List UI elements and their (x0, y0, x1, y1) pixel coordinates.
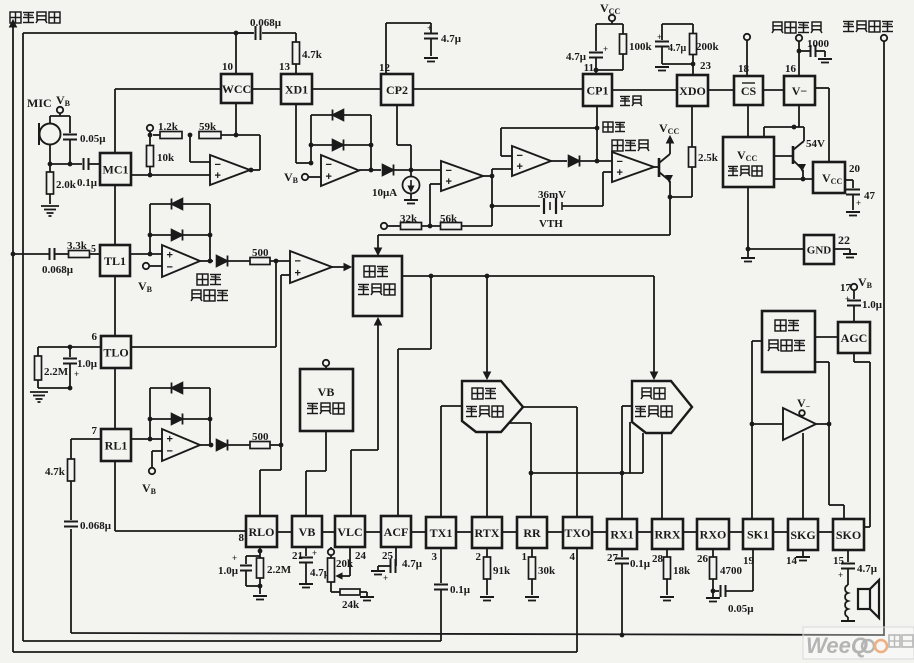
svg-text:ACF: ACF (384, 525, 409, 539)
op-amp U7 summing (290, 251, 332, 283)
wire RL1 left leg (71, 438, 101, 440)
node 发送输出 (transmit output) label (10, 12, 21, 23)
wire buffer lower to SKG (802, 433, 804, 519)
svg-text:4.7μ: 4.7μ (441, 33, 462, 45)
svg-text:+: + (856, 198, 861, 208)
svg-text:−: − (167, 446, 173, 458)
svg-text:+: + (845, 294, 850, 304)
ic-block TX1 pin 3 (426, 517, 456, 548)
svg-text:4700: 4700 (720, 565, 743, 577)
svg-text:15: 15 (833, 555, 845, 567)
svg-text:4: 4 (570, 551, 576, 563)
svg-text:500: 500 (252, 247, 269, 259)
svg-text:+: + (74, 369, 79, 379)
svg-text:RR: RR (523, 526, 541, 540)
svg-text:CS: CS (741, 84, 757, 98)
wire bottom rail A (71, 633, 884, 635)
svg-text:2.2M: 2.2M (44, 366, 69, 378)
svg-text:RTX: RTX (475, 526, 500, 540)
wire limiter to AGC (815, 336, 838, 338)
op-amp U9 buffer with V- supply (752, 423, 783, 425)
svg-text:18k: 18k (673, 565, 691, 577)
wire CS to Vcc regulator (747, 105, 749, 137)
capacitor 4.7u below VB pin 21 (305, 547, 307, 556)
svg-text:+: + (383, 573, 388, 583)
svg-text:22: 22 (838, 233, 850, 247)
wire attenuation control line (378, 234, 670, 236)
svg-text:−: − (326, 159, 332, 171)
ic-block RX1 pin 27 (607, 519, 637, 549)
capacitor 1.0u at AGC top (847, 300, 861, 302)
svg-text:2: 2 (476, 551, 482, 563)
capacitor 1.0u polarized (69, 347, 71, 357)
wire V- right to Vcc pin 20 box (815, 87, 829, 89)
svg-text:TL1: TL1 (104, 254, 126, 268)
svg-text:+: + (167, 433, 173, 445)
op-amp U8 (162, 429, 200, 461)
node U2 output (359, 169, 371, 171)
wire bottom rail C to TXO output (13, 651, 577, 653)
capacitor 1.0u and resistor 2.2M below RLO (259, 547, 261, 556)
svg-text:25: 25 (382, 550, 394, 562)
svg-text:RL1: RL1 (105, 438, 128, 452)
op-amp U2 (321, 155, 359, 186)
wire buffer output jog to SKO (816, 423, 829, 425)
svg-text:30k: 30k (538, 565, 556, 577)
wire mic node (50, 163, 82, 165)
node junction transmit rail to TL1 (11, 252, 16, 257)
wire CP2 pin 12 to detector (396, 105, 398, 145)
svg-text:10k: 10k (157, 152, 175, 164)
current-source 10uA (410, 170, 412, 176)
resistor 4700 below RXO pin 26 (712, 549, 714, 557)
svg-text:4.7μ: 4.7μ (857, 563, 878, 575)
node 直流输入 (DC input) terminal pin 16 (773, 22, 782, 30)
ground below SKG pin 14 (802, 550, 804, 556)
svg-text:28: 28 (652, 553, 664, 565)
svg-text:11: 11 (584, 62, 594, 74)
capacitor 47 at Vcc pin 20 (845, 179, 853, 181)
svg-text:−: − (617, 156, 623, 168)
svg-text:24k: 24k (342, 599, 360, 611)
ic-block AGC (838, 322, 870, 353)
wire receive attenuator to RRX (661, 433, 663, 519)
svg-text:+: + (427, 23, 432, 33)
ground tick at GND box (834, 248, 850, 250)
ic-block SKG pin 14 (788, 519, 818, 550)
svg-text:500: 500 (252, 431, 269, 443)
inductor speaker coil (845, 585, 848, 617)
wire U7 output arrow into controller (332, 266, 346, 268)
wire transmit attenuator output to TXO (523, 406, 577, 408)
svg-text:7: 7 (92, 425, 98, 437)
wire receive attenuator left tap (629, 422, 631, 473)
wire VB regulator to VB pin 21 (325, 431, 327, 471)
svg-text:+: + (295, 268, 301, 280)
ground below TLO bias (38, 387, 70, 389)
wire MC1 to TL1 (114, 185, 116, 245)
svg-text:+: + (517, 161, 523, 173)
diode D3 after U2 (371, 169, 381, 171)
node U8 output (200, 444, 213, 446)
svg-text:17: 17 (840, 282, 852, 294)
wire Q1 emitter to control line (669, 181, 671, 235)
wire to ACF pin 25 (430, 276, 432, 349)
svg-text:4.7μ: 4.7μ (566, 51, 587, 63)
wire transmit attenuator lower tap to RR (508, 422, 531, 424)
svg-text:91k: 91k (493, 565, 511, 577)
wire XD1 pin to op-amp U2 (295, 104, 297, 163)
svg-text:56k: 56k (440, 213, 458, 225)
svg-text:CP1: CP1 (587, 83, 609, 97)
ic-block VB pin 21 (292, 516, 322, 547)
ic-block RRX pin 28 (652, 519, 683, 549)
wire controller output row (402, 275, 654, 277)
ic-block XDO pin 23 (677, 75, 708, 106)
node junction RX1 leg on rail A (620, 633, 625, 638)
ic-block RL1 pin 7 (101, 429, 131, 461)
ic-block CP1 pin 11 (583, 74, 612, 106)
resistor 2.0k mic bias (49, 164, 51, 172)
svg-text:VTH: VTH (539, 218, 563, 230)
diode D5 (217, 256, 228, 267)
wire RL1 leg rail (70, 439, 72, 459)
svg-text:0.068μ: 0.068μ (80, 520, 112, 532)
svg-text:3.3k: 3.3k (67, 240, 88, 252)
resistor 24k (331, 591, 340, 593)
svg-text:26: 26 (697, 553, 709, 565)
resistor 4.7k at XD1 pin13 (295, 33, 297, 42)
svg-text:6: 6 (92, 331, 98, 343)
svg-text:100k: 100k (629, 41, 653, 53)
svg-text:4.7k: 4.7k (45, 466, 66, 478)
resistor 32k (401, 223, 422, 230)
ic-block RXO pin 26 (697, 519, 729, 549)
resistor 200k at XDO (692, 24, 694, 33)
wire arrow into 接收衰耗器 (653, 276, 655, 374)
svg-text:200k: 200k (696, 41, 720, 53)
svg-text:0.1μ: 0.1μ (450, 584, 471, 596)
svg-text:0.05μ: 0.05μ (728, 603, 754, 615)
svg-text:AGC: AGC (841, 331, 868, 345)
ic-block GND pin 22 (804, 235, 834, 264)
wire receive attenuator input from RX1 (622, 405, 632, 407)
speaker (858, 589, 870, 609)
capacitor 4.7u below SKO pin 15 (847, 550, 849, 562)
svg-text:47: 47 (864, 190, 876, 202)
svg-text:−: − (446, 165, 452, 177)
diode pair feedback loop U6 (149, 204, 151, 254)
svg-text:MC1: MC1 (103, 162, 129, 176)
ic-block TL1 pin 5 (100, 245, 130, 276)
svg-text:RRX: RRX (655, 527, 681, 541)
ic-block CS-bar pin 18 (734, 76, 763, 105)
svg-text:0.068μ: 0.068μ (42, 264, 74, 276)
op-amp U6 话筒放大器 (162, 245, 200, 277)
svg-text:0.1μ: 0.1μ (77, 177, 98, 189)
wire WCC to MC1 (114, 89, 116, 153)
diode pair feedback loop U8 (149, 388, 151, 439)
svg-text:20: 20 (849, 163, 861, 175)
resistor 59k (199, 132, 221, 139)
ic-block MC1 (100, 153, 131, 185)
svg-text:10: 10 (222, 61, 234, 73)
ic-block V- pin 16 (784, 76, 815, 105)
svg-text:−: − (167, 262, 173, 274)
op-amp U3 (441, 161, 483, 191)
svg-text:16: 16 (785, 63, 797, 75)
terminal above 10k (147, 125, 153, 131)
svg-text:2.0k: 2.0k (56, 179, 77, 191)
svg-text:+: + (838, 570, 843, 580)
op-amp U5 comparator 比较器 (612, 140, 623, 151)
svg-text:0.05μ: 0.05μ (80, 133, 106, 145)
svg-text:36mV: 36mV (538, 189, 566, 201)
svg-text:+: + (312, 548, 317, 558)
capacitor 0.1u below RX1 pin 27 (621, 549, 623, 557)
wire cross rail (531, 472, 643, 474)
wire RL1 to op-amp U8 (131, 438, 162, 440)
ic-block RLO pin 8 (246, 516, 277, 547)
svg-text:1.0μ: 1.0μ (862, 299, 883, 311)
block 发送衰耗器 (transmit attenuator) (462, 381, 523, 432)
svg-text:VB: VB (299, 525, 316, 539)
op-amp U1 mic stage (210, 155, 250, 185)
node CS pin 18 terminal (744, 34, 750, 40)
diode pair feedback loop U2 (310, 115, 312, 163)
svg-text:RLO: RLO (248, 525, 274, 539)
svg-text:−: − (215, 159, 221, 171)
wire inverting input op-amp U1 (189, 135, 191, 162)
resistor 4.7k (68, 459, 75, 481)
svg-text:+: + (232, 553, 237, 563)
svg-text:VB: VB (318, 385, 335, 399)
node U6 output (200, 260, 213, 262)
svg-text:SKO: SKO (836, 528, 861, 542)
ic-block VLC pin 24 (335, 516, 365, 547)
resistor 91k below RTX pin 2 (486, 548, 488, 557)
svg-text:V−: V− (792, 84, 808, 98)
svg-text:WeeQ: WeeQ (806, 633, 868, 658)
wire transmit attenuator bottom to RTX (486, 432, 488, 517)
ic-block XD1 pin 13 (281, 74, 312, 104)
svg-text:+: + (167, 249, 173, 261)
ic-block Vcc稳压器 (Vcc regulator) (723, 137, 774, 187)
svg-text:1.0μ: 1.0μ (218, 565, 239, 577)
node 话筒放大器 (mic amplifier) label (197, 274, 208, 285)
wire TXO pin 4 down to bottom rail (576, 548, 578, 652)
wire receive attenuator bottom to cross rail (642, 433, 644, 473)
resistor 2.2M (37, 347, 39, 356)
ic-block 峰值限幅器 (peak limiter) (762, 311, 815, 372)
svg-text:21: 21 (292, 550, 303, 562)
svg-text:CP2: CP2 (386, 83, 408, 97)
resistor 2.5k from XDO (691, 106, 693, 147)
wire 59k to WCC and feedback (221, 134, 260, 136)
wire second left rail (22, 33, 24, 641)
wire TLO to summing node (275, 261, 277, 347)
svg-text:1: 1 (522, 551, 528, 563)
wire Q2 emitter row (802, 170, 804, 179)
ic-block VB稳压器 (VB regulator) (300, 369, 353, 431)
wire AGC bottom to SKO right (853, 353, 855, 362)
ic-block 衰耗控制器 (attenuation controller) (353, 256, 402, 316)
svg-text:WCC: WCC (222, 82, 251, 96)
capacitor 0.068u on leg (64, 521, 78, 523)
svg-text:14: 14 (786, 555, 798, 567)
svg-text:1.0μ: 1.0μ (77, 358, 98, 370)
capacitor 0.05u to SK1 pin 19 (713, 590, 719, 592)
svg-text:MIC: MIC (27, 96, 52, 110)
ic-block SK1 pin 19 (743, 519, 773, 549)
wire regulator bottom to GND box (747, 187, 749, 249)
svg-text:59k: 59k (199, 121, 217, 133)
diode D6 (217, 440, 228, 451)
ic-block ACF pin 25 (381, 516, 411, 547)
ground below 2.0k (41, 205, 59, 207)
svg-text:+: + (446, 176, 452, 188)
wire CP1 bias loop (596, 23, 623, 25)
wire TLO output to summing (131, 346, 276, 348)
svg-text:+: + (215, 170, 221, 182)
resistor 56k (441, 223, 462, 230)
node junction top rail / WCC (234, 31, 239, 36)
wire top-row interconnects (115, 88, 221, 90)
wire TL1 to op-amp U6 (130, 253, 162, 255)
ic-block SKO pin 15 (833, 519, 864, 550)
capacitor 4.7u at XDO pin 23 (662, 23, 693, 25)
svg-text:4.7k: 4.7k (302, 49, 323, 61)
ic-block WCC pin 10 (221, 74, 252, 103)
svg-text:2.2M: 2.2M (267, 564, 292, 576)
svg-text:3: 3 (432, 551, 438, 563)
wire bottom rail B to TX1 cap (23, 640, 441, 642)
terminal VB at U6 (143, 263, 149, 269)
wire receive-input right rail (883, 40, 885, 636)
svg-text:32k: 32k (400, 213, 418, 225)
svg-text:SKG: SKG (790, 528, 815, 542)
svg-text:0.1μ: 0.1μ (630, 558, 651, 570)
node 检测 (detect) junction at CP1 bottom (596, 106, 598, 161)
svg-text:12: 12 (379, 62, 391, 74)
svg-text:+: + (617, 167, 623, 179)
wire limiter left to SK1 rail (752, 340, 762, 342)
wire arrow into 发送衰耗器 (486, 276, 488, 374)
svg-text:+: + (603, 44, 608, 54)
ic-block RTX pin 2 (472, 517, 502, 548)
wire U4 feedback loop to 检测 node (501, 127, 597, 129)
capacitor 0.1u below TX1 pin 3 (440, 548, 442, 583)
watermark WeeQoo (803, 627, 914, 659)
svg-text:RX1: RX1 (610, 527, 633, 541)
ic-block RR pin 1 (517, 517, 547, 548)
wire U3 + input (430, 183, 441, 185)
resistor 18k below RRX pin 28 (666, 549, 668, 557)
resistor 1.2k (153, 134, 160, 136)
resistor 10k (147, 146, 154, 167)
resistor 500 transmit (250, 258, 270, 265)
svg-text:10μA: 10μA (372, 187, 397, 199)
svg-text:SK1: SK1 (747, 527, 769, 541)
wire top rail to WCC pin 10 (23, 32, 253, 34)
resistor 100k CP1 bias (622, 24, 624, 34)
block 接收衰耗器 (receive attenuator) (632, 381, 692, 433)
capacitor 4.7u at CP2 top with ground (385, 23, 387, 74)
resistor 3.3k (69, 251, 90, 258)
wire V- bottom to regulator top (798, 105, 800, 127)
ic-block CP2 pin 12 (381, 74, 413, 105)
svg-text:TX1: TX1 (430, 526, 453, 540)
svg-text:24: 24 (355, 550, 367, 562)
wire 56k up to U3 output (491, 176, 493, 226)
svg-text:XD1: XD1 (285, 82, 308, 96)
svg-text:23: 23 (700, 60, 712, 72)
svg-text:8: 8 (239, 532, 245, 544)
svg-text:TLO: TLO (103, 345, 128, 359)
wire RL1 bottom to RLO input (114, 461, 116, 531)
diode D4 after U4 (551, 160, 567, 162)
wire RL1 path down to RLO (280, 446, 282, 470)
svg-text:54V: 54V (806, 138, 825, 150)
wire transmit attenuator input from TX1 (441, 405, 462, 407)
node 信噪 (signal/noise) label (620, 96, 630, 98)
capacitor 0.05u mic filter (69, 116, 71, 133)
wire TLO left bias (38, 346, 101, 348)
svg-text:GND: GND (807, 244, 832, 256)
ic-block TLO pin 6 (101, 336, 131, 368)
transistor Q2 54V (774, 155, 793, 157)
battery 36mV VTH reference (492, 205, 540, 207)
svg-text:RXO: RXO (700, 527, 727, 541)
svg-text:−: − (517, 150, 523, 162)
ic-block Vcc pin 20 (813, 162, 845, 193)
svg-text:13: 13 (279, 61, 291, 73)
svg-text:+: + (657, 32, 662, 42)
wire transmit-output left rail with up arrow (12, 24, 14, 652)
node junction 1.2k/59k (188, 133, 193, 138)
node 接收输入 (receive input) terminal (843, 21, 854, 23)
capacitor 4.7u below ACF (395, 547, 397, 560)
ground tick below XDO cap (655, 66, 669, 68)
op-amp U4 with feedback from CP1 (492, 175, 493, 177)
svg-text:−: − (295, 255, 301, 267)
power VCC arrow at Q1 collector (669, 140, 671, 154)
node junction 1.2k row (148, 133, 153, 138)
terminal on VB regulator top (323, 360, 329, 366)
svg-text:20k: 20k (336, 558, 354, 570)
resistor 500 receive (250, 442, 270, 449)
potentiometer 20k below VLC (330, 547, 332, 549)
wire VLC control rail with up arrow (350, 450, 352, 516)
capacitor 0.068u TL1 input (13, 253, 49, 255)
resistor 30k below RR pin 1 (531, 548, 533, 557)
svg-text:XDO: XDO (679, 84, 706, 98)
svg-text:VLC: VLC (337, 525, 362, 539)
ic-block TXO pin 4 (563, 517, 592, 548)
transistor Q1 comparator output (654, 166, 659, 168)
svg-text:1.2k: 1.2k (158, 121, 179, 133)
svg-text:TXO: TXO (564, 526, 590, 540)
svg-text:+: + (326, 171, 332, 183)
capacitor 0.1u coupling to MC1 (83, 158, 85, 170)
wire MC1 output row (131, 174, 210, 176)
svg-text:4.7μ: 4.7μ (668, 43, 687, 54)
svg-text:4.7μ: 4.7μ (402, 558, 423, 570)
terminal 32k input (381, 223, 387, 229)
svg-text:2.5k: 2.5k (698, 152, 719, 164)
node pin 23 junction (662, 63, 693, 65)
wire U7 + input from RL1 path (281, 274, 290, 276)
